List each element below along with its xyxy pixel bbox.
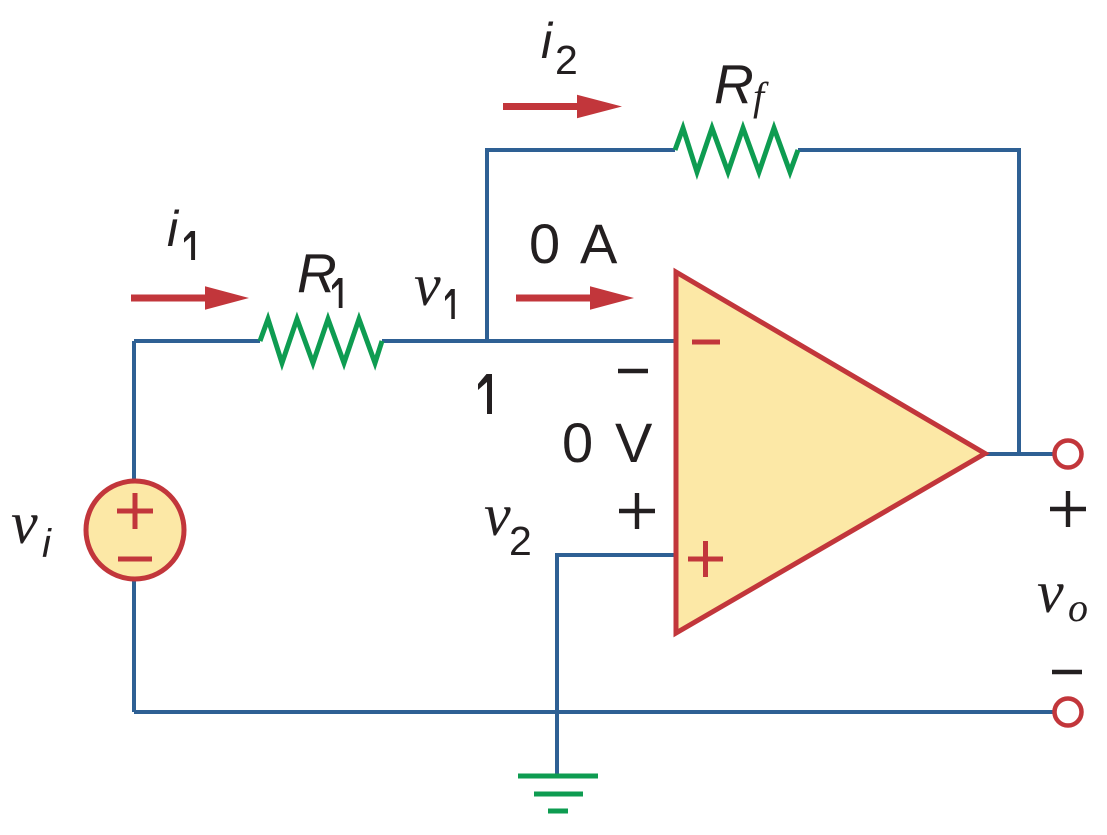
svg-text:V: V bbox=[615, 411, 653, 474]
svg-text:2: 2 bbox=[509, 518, 532, 564]
svg-text:0: 0 bbox=[562, 411, 593, 474]
svg-text:A: A bbox=[580, 212, 618, 275]
svg-text:v: v bbox=[1037, 559, 1064, 625]
svg-text:i: i bbox=[167, 201, 180, 257]
svg-text:R: R bbox=[714, 53, 754, 115]
svg-text:v: v bbox=[414, 252, 441, 318]
svg-text:2: 2 bbox=[555, 37, 578, 83]
svg-text:v: v bbox=[484, 482, 511, 548]
svg-text:i: i bbox=[42, 522, 52, 566]
svg-text:v: v bbox=[11, 490, 38, 556]
svg-text:0: 0 bbox=[529, 212, 560, 275]
svg-text:i: i bbox=[541, 13, 554, 69]
svg-text:R: R bbox=[297, 242, 337, 304]
svg-text:f: f bbox=[753, 74, 769, 119]
svg-text:o: o bbox=[1068, 585, 1088, 630]
